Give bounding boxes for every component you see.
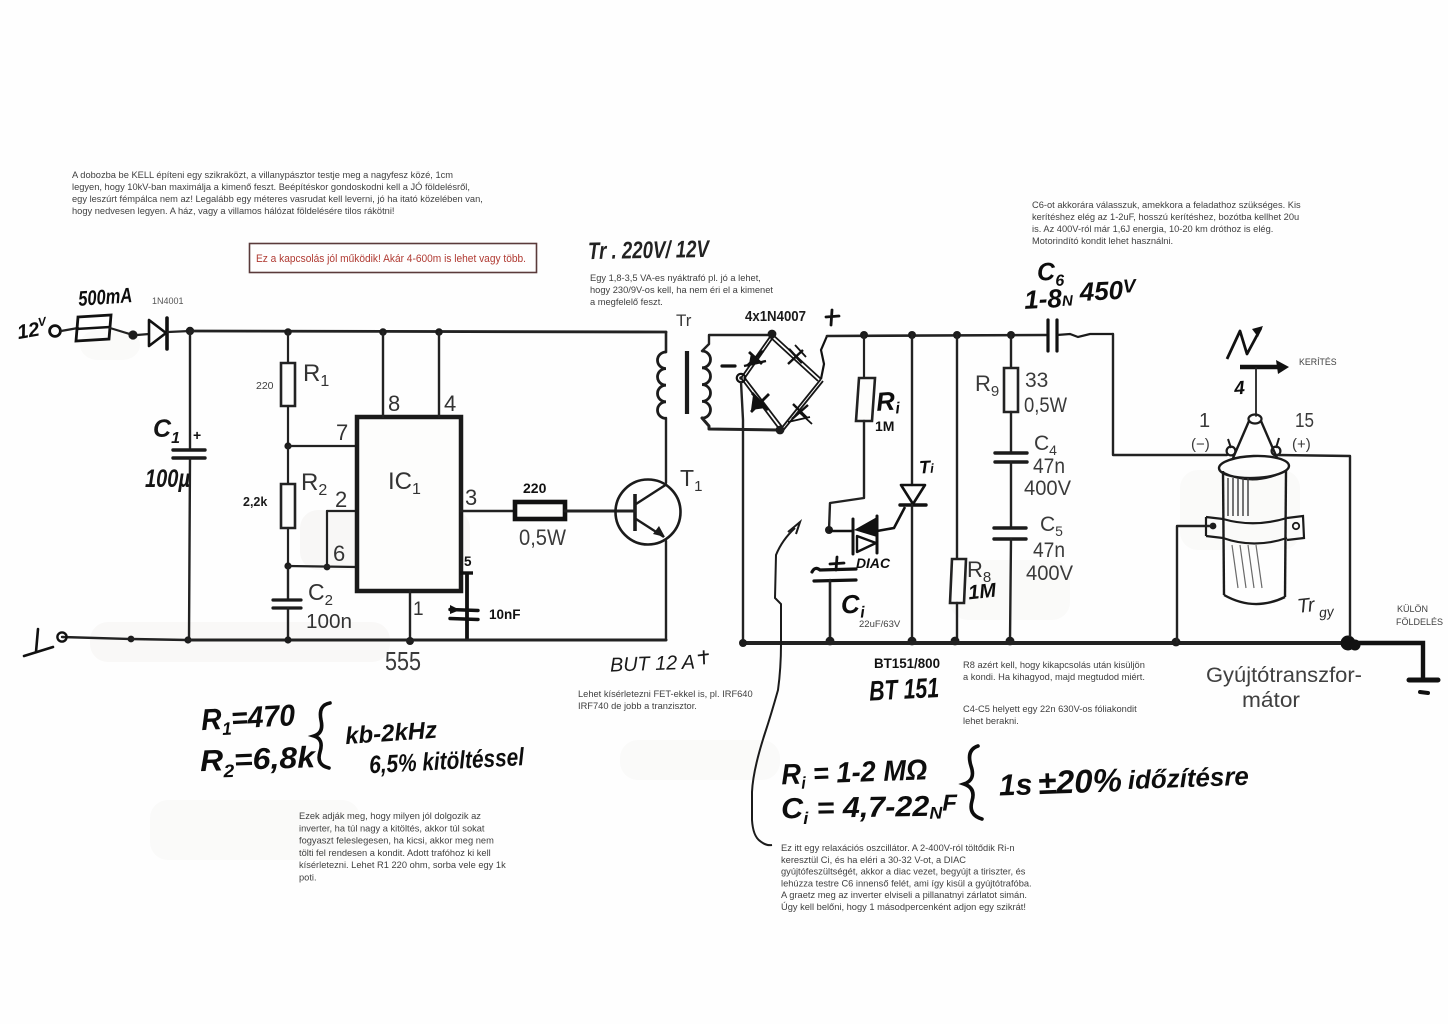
svg-text:5: 5	[464, 554, 472, 569]
svg-text:Tr: Tr	[676, 311, 692, 330]
svg-text:kerítéshez elég az 1-2uF, hoss: kerítéshez elég az 1-2uF, hosszú kerítés…	[1032, 212, 1299, 222]
svg-text:500mA: 500mA	[77, 284, 132, 311]
svg-text:a kondi. Ha kihagyod, majd meg: a kondi. Ha kihagyod, majd megtudod miér…	[963, 672, 1145, 682]
svg-text:hogy 230/9V-os kell, ha nem ér: hogy 230/9V-os kell, ha nem éri el a kim…	[590, 285, 773, 295]
svg-text:R8 azért kell, hogy kikapcsolá: R8 azért kell, hogy kikapcsolás után kis…	[963, 660, 1145, 670]
svg-text:4: 4	[444, 391, 456, 416]
svg-text:Úgy kell belőni, hogy 1 másodp: Úgy kell belőni, hogy 1 másodpercenként …	[781, 902, 1026, 912]
svg-text:1: 1	[1199, 410, 1210, 432]
svg-text:1: 1	[413, 599, 424, 620]
svg-text:fogyaszt feleslegesen, ha kics: fogyaszt feleslegesen, ha kicsi, akkor m…	[299, 836, 494, 846]
svg-text:FÖLDELÉS: FÖLDELÉS	[1396, 617, 1443, 627]
svg-text:6: 6	[333, 541, 345, 566]
svg-text:A graetz meg az inverter elvis: A graetz meg az inverter elviseli a pill…	[781, 890, 1027, 900]
svg-text:mátor: mátor	[1242, 689, 1300, 712]
svg-text:Tr . 220V/ 12V: Tr . 220V/ 12V	[588, 236, 711, 265]
svg-text:C4-C5 helyett egy 22n 630V-os: C4-C5 helyett egy 22n 630V-os fóliakondi…	[963, 704, 1137, 714]
svg-text:egy leszúrt fémpálca nem az! L: egy leszúrt fémpálca nem az! Legalább eg…	[72, 194, 483, 204]
svg-text:poti.: poti.	[299, 873, 317, 883]
svg-text:C6-ot akkorára válasszuk, amek: C6-ot akkorára válasszuk, amekkora a fel…	[1032, 200, 1301, 210]
svg-text:(+): (+)	[1292, 436, 1311, 453]
svg-text:100µ: 100µ	[145, 465, 190, 493]
svg-text:4: 4	[1232, 378, 1246, 400]
svg-text:1N4001: 1N4001	[152, 296, 184, 306]
svg-text:A dobozba be KELL építeni egy: A dobozba be KELL építeni egy szikraközt…	[72, 170, 453, 180]
svg-text:400V: 400V	[1024, 477, 1071, 500]
svg-text:IRF740 de jobb a tranzisztor.: IRF740 de jobb a tranzisztor.	[578, 701, 697, 711]
svg-text:lehúzza testre C6 innenső felé: lehúzza testre C6 innenső felét, ami így…	[781, 878, 1032, 888]
svg-text:7: 7	[336, 420, 348, 445]
svg-text:DIAC: DIAC	[856, 555, 891, 571]
svg-text:Motorindító kondit lehet haszn: Motorindító kondit lehet használni.	[1032, 236, 1173, 246]
svg-text:400V: 400V	[1026, 562, 1073, 585]
svg-text:0,5W: 0,5W	[1024, 394, 1067, 417]
svg-text:KERÍTÉS: KERÍTÉS	[1299, 357, 1337, 367]
svg-text:lehet berakni.: lehet berakni.	[963, 716, 1019, 726]
svg-text:inverter, ha túl nagy a kitölt: inverter, ha túl nagy a kitöltés, akkor …	[299, 823, 485, 833]
svg-text:+: +	[193, 427, 201, 443]
svg-text:Ti: Ti	[919, 457, 935, 478]
svg-text:220: 220	[523, 480, 547, 496]
svg-text:tölti fel rendesen a kondit. A: tölti fel rendesen a kondit. Adott trafó…	[299, 848, 491, 858]
svg-text:gyújtófeszültségét, akkor a di: gyújtófeszültségét, akkor a diac vezet, …	[781, 867, 1026, 877]
svg-text:15: 15	[1295, 410, 1314, 432]
svg-text:Ezek adják meg, hogy milyen jó: Ezek adják meg, hogy milyen jól dolgozik…	[299, 811, 481, 821]
svg-text:47n: 47n	[1033, 455, 1065, 478]
svg-text:Ez a kapcsolás jól működik! Ak: Ez a kapcsolás jól működik! Akár 4-600m …	[256, 253, 526, 265]
svg-text:555: 555	[385, 646, 421, 676]
svg-text:BT 151: BT 151	[868, 672, 940, 707]
svg-text:100n: 100n	[306, 611, 352, 633]
svg-text:33: 33	[1025, 369, 1048, 392]
svg-text:keresztül Ci, és ha eléri a 30: keresztül Ci, és ha eléri a 30-32 V-ot, …	[781, 855, 966, 865]
svg-text:BT151/800: BT151/800	[874, 656, 940, 671]
svg-text:Egy 1,8-3,5 VA-es nyáktrafó pl: Egy 1,8-3,5 VA-es nyáktrafó pl. jó a leh…	[590, 273, 761, 283]
svg-text:22uF/63V: 22uF/63V	[859, 619, 901, 630]
svg-text:10nF: 10nF	[489, 607, 521, 622]
svg-text:2,2k: 2,2k	[243, 495, 267, 509]
svg-text:Gyújtótranszfor-: Gyújtótranszfor-	[1206, 664, 1362, 687]
svg-text:a megfelelő feszt.: a megfelelő feszt.	[590, 297, 663, 307]
svg-text:legyen, hogy 10kV-ban maximálj: legyen, hogy 10kV-ban maximálja a kimenő…	[72, 182, 470, 192]
svg-text:±20%: ±20%	[1037, 761, 1122, 801]
svg-text:KÜLÖN: KÜLÖN	[1397, 604, 1428, 614]
svg-text:gy: gy	[1318, 603, 1335, 621]
svg-text:2: 2	[335, 487, 347, 512]
svg-text:hogy nedvesen legyen. A ház, v: hogy nedvesen legyen. A ház, vagy a vill…	[72, 206, 395, 216]
svg-text:1M: 1M	[875, 418, 894, 434]
svg-text:Ez itt egy relaxációs oszcillá: Ez itt egy relaxációs oszcillátor. A 2-4…	[781, 843, 1015, 853]
svg-text:is. Az 400V-ról már 1,6J energ: is. Az 400V-ról már 1,6J energia, 10-20 …	[1032, 224, 1273, 234]
svg-text:Lehet kísérletezni FET-ekkel i: Lehet kísérletezni FET-ekkel is, pl. IRF…	[578, 689, 753, 699]
svg-text:0,5W: 0,5W	[519, 525, 566, 550]
svg-text:8: 8	[388, 391, 400, 416]
svg-text:4x1N4007: 4x1N4007	[745, 309, 806, 325]
svg-text:1M: 1M	[967, 579, 998, 604]
svg-text:3: 3	[465, 485, 477, 510]
svg-text:BUT 12 A: BUT 12 A	[610, 652, 696, 677]
svg-text:220: 220	[256, 380, 274, 392]
svg-text:1s: 1s	[998, 768, 1033, 802]
svg-text:47n: 47n	[1033, 539, 1065, 562]
svg-text:időzítésre: időzítésre	[1127, 761, 1249, 795]
svg-text:kísérletezni. Lehet R1 220 ohm: kísérletezni. Lehet R1 220 ohm, sorba ve…	[299, 860, 506, 870]
svg-text:(−): (−)	[1191, 436, 1210, 453]
